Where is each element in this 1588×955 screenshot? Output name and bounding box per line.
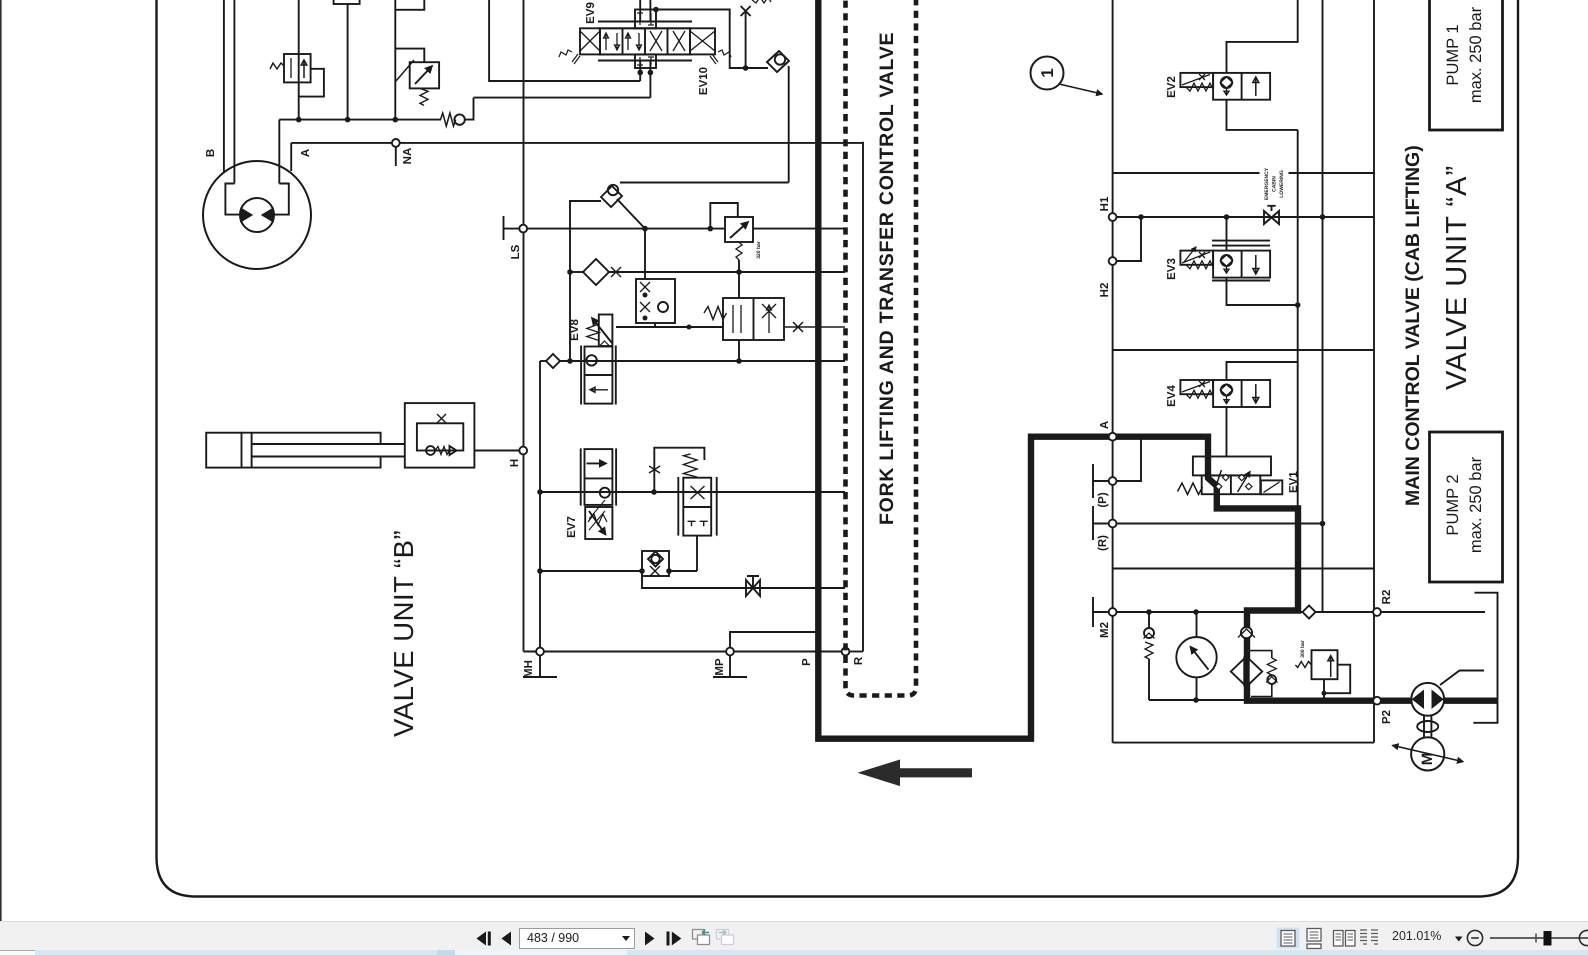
svg-text:EV1: EV1 — [1288, 471, 1300, 493]
svg-text:EV3: EV3 — [1166, 258, 1178, 280]
svg-text:EMERGENCY: EMERGENCY — [1264, 167, 1270, 200]
svg-text:H: H — [509, 459, 521, 467]
svg-text:EV2: EV2 — [1166, 76, 1178, 98]
svg-text:EV9: EV9 — [585, 2, 597, 24]
svg-text:PUMP 2: PUMP 2 — [1444, 474, 1462, 535]
svg-text:H2: H2 — [1099, 283, 1111, 298]
svg-text:R: R — [853, 656, 865, 665]
svg-text:CABIN: CABIN — [1272, 176, 1278, 192]
svg-text:EV10: EV10 — [698, 67, 710, 95]
svg-text:R2: R2 — [1381, 590, 1393, 605]
svg-text:320 bar: 320 bar — [756, 241, 762, 259]
svg-text:P2: P2 — [1381, 710, 1393, 724]
svg-text:B: B — [205, 149, 217, 157]
svg-text:LS: LS — [510, 244, 522, 259]
svg-text:1: 1 — [1038, 68, 1057, 77]
svg-text:M: M — [1419, 753, 1436, 766]
svg-text:A: A — [300, 149, 312, 157]
svg-text:LOWERING: LOWERING — [1279, 170, 1285, 198]
svg-text:EV8: EV8 — [569, 319, 581, 341]
svg-text:300 bar: 300 bar — [1300, 640, 1306, 658]
svg-text:M2: M2 — [1099, 622, 1111, 638]
svg-text:max. 250 bar: max. 250 bar — [1467, 6, 1485, 103]
svg-text:MH: MH — [523, 660, 535, 678]
svg-text:P: P — [801, 658, 813, 666]
svg-text:max. 250 bar: max. 250 bar — [1467, 456, 1485, 553]
svg-text:EV7: EV7 — [566, 516, 578, 538]
svg-text:VALVE UNIT “B”: VALVE UNIT “B” — [388, 530, 419, 737]
svg-text:H1: H1 — [1099, 196, 1111, 211]
svg-text:(P): (P) — [1097, 492, 1109, 508]
svg-text:PUMP 1: PUMP 1 — [1444, 24, 1462, 85]
svg-text:EV4: EV4 — [1166, 385, 1178, 407]
svg-text:NA: NA — [402, 148, 414, 165]
svg-text:MP: MP — [714, 658, 726, 676]
svg-text:MAIN CONTROL VALVE (CAB LIFTIN: MAIN CONTROL VALVE (CAB LIFTING) — [1402, 145, 1424, 506]
svg-text:A: A — [1099, 421, 1111, 429]
svg-text:(R): (R) — [1097, 535, 1109, 551]
svg-text:VALVE UNIT “A”: VALVE UNIT “A” — [1441, 165, 1473, 390]
svg-text:FORK LIFTING AND TRANSFER CONT: FORK LIFTING AND TRANSFER CONTROL VALVE — [876, 32, 898, 525]
